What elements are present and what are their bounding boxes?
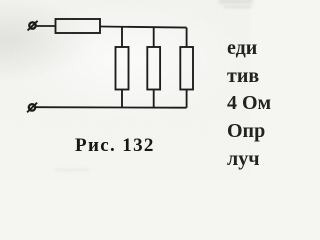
resistor R1 (series) xyxy=(56,19,101,33)
paper grain noise xyxy=(0,0,250,179)
wire top bus from R1 to node C xyxy=(100,27,187,28)
text fragment line 3: 4 О... xyxy=(227,93,271,113)
text fragment line 2: ти... xyxy=(227,66,259,86)
wire terminal T1 to resistor R1 xyxy=(36,25,56,27)
wire bottom bus to terminal T2 xyxy=(36,106,187,109)
wire stub R2 to bottom bus xyxy=(121,90,123,108)
faded print smudge top-right xyxy=(219,0,253,4)
text fragment line 1: ед... xyxy=(227,38,257,58)
faded streak under smudge xyxy=(224,6,252,8)
terminal T2 (bottom input) xyxy=(27,103,37,113)
resistor R4 (parallel 3) xyxy=(180,47,193,90)
resistor R3 (parallel 2) xyxy=(147,47,160,90)
text fragment line 5: лу... xyxy=(227,149,260,169)
text fragment line 4: Оп... xyxy=(227,121,265,141)
resistor R2 (parallel 1) xyxy=(116,47,129,90)
terminal T1 (top input) xyxy=(28,21,38,31)
faint smudge bottom-left of caption xyxy=(55,169,89,171)
wire drop to R4 xyxy=(186,28,188,48)
paper background shading xyxy=(0,0,250,179)
wire stub R3 to bottom bus xyxy=(153,90,155,108)
caption: Рис. 132 xyxy=(75,135,320,157)
wire stub R4 to bottom bus xyxy=(186,90,188,108)
wire drop to R2 xyxy=(121,27,123,48)
wire drop to R3 xyxy=(153,27,155,47)
